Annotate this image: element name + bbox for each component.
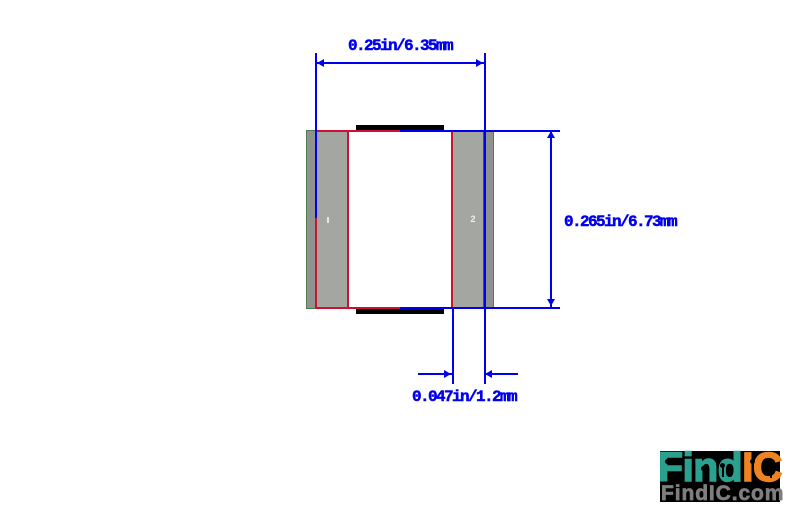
courtyard outline (red outer rectangle) [315,130,485,309]
extension line: right dim bottom horizontal [400,307,560,309]
logo text FindIC.com [661,482,783,506]
pin 1 label [327,217,329,223]
logo circuit dot on I [750,459,755,464]
arrow: top dim right [476,59,483,67]
arrow: right dim down [547,299,555,306]
pad 2 inner lighter region [452,130,484,307]
extension line: top dim left vertical [315,53,317,218]
body edge right (red inner vertical) [451,130,453,307]
component lead bottom (black bar) [356,309,444,314]
logo circuit dot on C [768,466,773,471]
logo circuit dot on F [665,459,670,464]
label: 0.25in/6.35mm [348,37,452,55]
label: 0.265in/6.73mm [564,213,676,231]
logo circuit dot on n [701,466,706,471]
dimension line: bottom left segment [418,373,452,375]
pad 1 (left, outer dark gray with dark-green border) [306,130,348,309]
logo text Find (teal) + IC (orange) [658,444,782,491]
pin 2 label [467,214,479,225]
dimension line: right vertical 0.265in [550,130,553,307]
extension line: top dim + bottom dim right vertical [484,53,486,384]
FindIC logo box [660,451,780,502]
dimension line: bottom right segment [484,373,518,375]
arrow: right dim up [547,131,555,138]
extension line: bottom dim left vertical [452,308,454,384]
label: 0.047in/1.2mm [412,388,516,406]
pad 2 (right, outer dark gray with dark-green border) [452,130,494,309]
extension line: right dim top horizontal [400,130,560,132]
pad 1 inner lighter region [316,130,348,307]
logo circuit dot on d [720,463,725,468]
dimension line: top horizontal 0.25in [316,62,484,64]
body edge left (red inner vertical) [347,130,349,307]
arrow: bottom dim pointing left [485,370,492,378]
component lead top (black bar) [356,125,444,130]
arrow: top dim left [317,59,324,67]
arrow: bottom dim pointing right [444,370,451,378]
